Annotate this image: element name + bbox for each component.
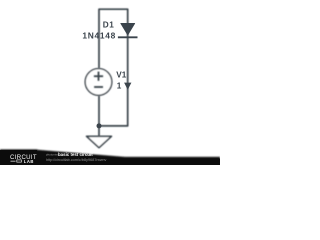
svg-text:D1: D1 bbox=[103, 20, 115, 29]
svg-text:1: 1 bbox=[117, 82, 122, 91]
svg-text:LAB: LAB bbox=[24, 159, 34, 164]
svg-text:http://circuitlab.com/c/b8y968: http://circuitlab.com/c/b8y9687nwmv bbox=[46, 157, 106, 162]
svg-text:V1: V1 bbox=[116, 70, 126, 79]
svg-text:1N4148: 1N4148 bbox=[82, 30, 116, 40]
